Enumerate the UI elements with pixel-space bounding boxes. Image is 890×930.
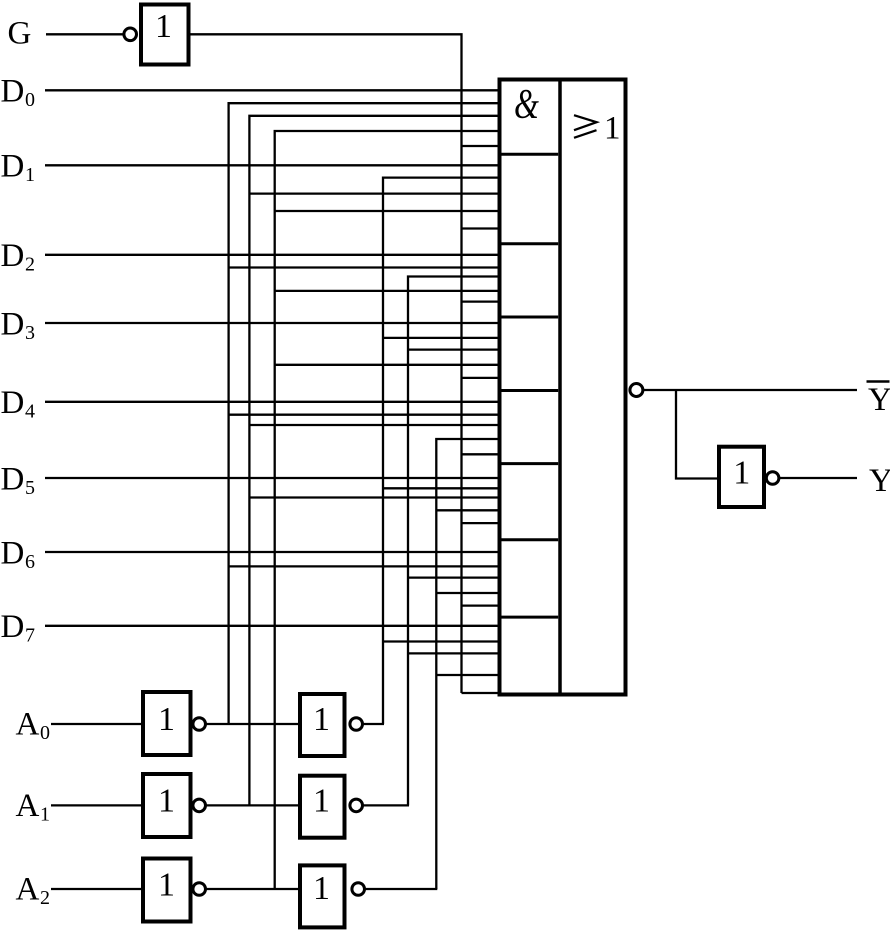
svg-text:G: G bbox=[8, 16, 32, 52]
wire A0 buffered to vertical bus bbox=[363, 723, 384, 725]
wire G-not tap to AND section 6 bbox=[462, 522, 500, 524]
inverter A0 first output bubble bbox=[193, 718, 206, 731]
svg-text:Y: Y bbox=[869, 463, 890, 499]
wire G-not tap to AND section 1 bbox=[462, 145, 500, 147]
wire G-not tap to AND section 3 bbox=[462, 300, 500, 302]
wire not-A2 tap to AND section 3 bbox=[275, 290, 499, 292]
wire A2 tap to AND section 8 bbox=[436, 674, 499, 676]
wire not-A2 tap to AND section 2 bbox=[275, 210, 499, 212]
wire D1 horizontal bbox=[45, 164, 499, 166]
wire A2 tap to AND section 6 bbox=[436, 509, 499, 511]
AND section divider 5 bbox=[500, 462, 559, 465]
inverter A0 second output bubble bbox=[350, 718, 363, 731]
inverter U4 (Y) box bbox=[719, 447, 764, 507]
svg-text:&: & bbox=[514, 81, 539, 129]
wire A2 tap to AND section 7 bbox=[436, 592, 499, 594]
svg-text:D: D bbox=[1, 306, 25, 342]
wire A1 tap to AND section 8 bbox=[408, 652, 499, 654]
wire not-A2 vertical bus bbox=[275, 131, 499, 889]
inverter A1 second output bubble bbox=[350, 799, 363, 812]
AND section divider 3 bbox=[500, 316, 559, 319]
wire not-A1 tap to AND section 2 bbox=[249, 192, 499, 194]
wire branch to output inverter bbox=[676, 390, 717, 479]
wire not-A0 vertical bus bbox=[229, 103, 499, 724]
wire A1 tap to AND section 4 bbox=[408, 348, 499, 350]
svg-text:1: 1 bbox=[313, 783, 330, 820]
wire G input lead bbox=[46, 33, 123, 35]
AND-gate block U2 outline with OR block U3 bbox=[500, 80, 626, 695]
wire not-A2 tap to AND section 4 bbox=[275, 364, 499, 366]
inverter A1 first box bbox=[143, 774, 191, 837]
svg-text:1: 1 bbox=[155, 8, 172, 45]
wire A1 tap to AND section 7 bbox=[408, 576, 499, 578]
node Y-not output label bbox=[867, 380, 890, 383]
wire D7 horizontal bbox=[45, 625, 499, 627]
inverter A2 second box bbox=[300, 865, 345, 927]
svg-text:1: 1 bbox=[604, 111, 621, 147]
wire D6 horizontal bbox=[45, 551, 499, 553]
wire G-not tap to AND section 7 bbox=[462, 604, 500, 606]
svg-text:7: 7 bbox=[25, 625, 35, 647]
OR block output bubble bbox=[630, 384, 643, 397]
wire A0 tap to AND section 6 bbox=[383, 487, 499, 489]
AND section divider 2 bbox=[500, 242, 559, 245]
wire A1 buffered to vertical bus bbox=[363, 804, 409, 806]
svg-text:A: A bbox=[16, 872, 40, 908]
inverter U1 (G) box bbox=[141, 5, 189, 65]
svg-text:1: 1 bbox=[313, 870, 330, 907]
AND section divider 7 bbox=[500, 616, 559, 619]
svg-text:4: 4 bbox=[25, 401, 35, 423]
wire not-A0 tap to AND section 3 bbox=[229, 266, 499, 268]
svg-text:D: D bbox=[1, 609, 25, 645]
svg-text:1: 1 bbox=[158, 867, 175, 904]
wire Y output bbox=[779, 477, 857, 479]
svg-text:A: A bbox=[16, 707, 40, 743]
wire not-A0 tap to AND section 5 bbox=[229, 414, 499, 416]
inverter U4 output bubble bbox=[766, 472, 779, 485]
inverter A0 first box bbox=[143, 692, 191, 755]
svg-text:5: 5 bbox=[25, 477, 35, 499]
AND section divider 6 bbox=[500, 538, 559, 541]
svg-text:1: 1 bbox=[158, 701, 175, 738]
wire D0 horizontal bbox=[45, 89, 499, 91]
svg-text:A: A bbox=[16, 788, 40, 824]
svg-text:D: D bbox=[1, 238, 25, 274]
wire not-A1 to second inverter bbox=[206, 804, 298, 806]
inverter A2 first box bbox=[143, 859, 191, 922]
wire D4 horizontal bbox=[45, 401, 499, 403]
wire G-not tap to AND section 4 bbox=[462, 377, 500, 379]
wire A0 tap to AND section 4 bbox=[383, 337, 499, 339]
svg-text:1: 1 bbox=[733, 455, 750, 492]
wire not-A0 to second inverter bbox=[206, 723, 298, 725]
inverter A1 first output bubble bbox=[193, 799, 206, 812]
wire A0 input lead bbox=[51, 723, 143, 725]
wire Y-not output bbox=[643, 389, 857, 391]
inverter A2 second output bubble bbox=[352, 883, 365, 896]
wire A2 input lead bbox=[51, 888, 143, 890]
svg-text:2: 2 bbox=[40, 887, 50, 909]
svg-text:3: 3 bbox=[25, 322, 35, 344]
wire A2 buffered to vertical bus bbox=[365, 888, 438, 890]
inverter A2 first output bubble bbox=[193, 883, 206, 896]
wire A2 vertical bus bbox=[436, 439, 499, 889]
svg-text:D: D bbox=[1, 461, 25, 497]
wire not-A1 tap to AND section 6 bbox=[249, 496, 499, 498]
svg-text:1: 1 bbox=[40, 803, 50, 825]
svg-text:2: 2 bbox=[25, 254, 35, 276]
svg-text:1: 1 bbox=[158, 783, 175, 820]
wire not-A1 vertical bus bbox=[249, 116, 499, 806]
svg-text:D: D bbox=[1, 74, 25, 110]
wire not-A0 tap to AND section 7 bbox=[229, 565, 499, 567]
svg-text:1: 1 bbox=[313, 701, 330, 738]
svg-text:D: D bbox=[1, 535, 25, 571]
inverter A0 second box bbox=[300, 694, 345, 756]
wire A0 vertical bus bbox=[383, 178, 499, 724]
AND section divider 1 bbox=[500, 153, 559, 156]
svg-text:D: D bbox=[1, 385, 25, 421]
svg-text:1: 1 bbox=[25, 164, 35, 186]
wire not-A1 tap to AND section 5 bbox=[249, 424, 499, 426]
wire D3 horizontal bbox=[45, 322, 499, 324]
wire G-not tap to AND section 8 bbox=[462, 692, 500, 694]
inverter A1 second box bbox=[300, 776, 345, 838]
wire G-not tap to AND section 5 bbox=[462, 453, 500, 455]
wire D5 horizontal bbox=[45, 477, 499, 479]
svg-text:D: D bbox=[1, 149, 25, 185]
wire not-A2 to second inverter bbox=[206, 888, 298, 890]
wire A1 vertical bus bbox=[408, 277, 499, 806]
wire A0 tap to AND section 8 bbox=[383, 640, 499, 642]
wire AND/OR divider bbox=[558, 80, 562, 695]
wire D2 horizontal bbox=[45, 254, 499, 256]
wire G-not tap to AND section 2 bbox=[462, 227, 500, 229]
inverter U1 input bubble bbox=[124, 28, 137, 41]
AND section divider 4 bbox=[500, 389, 559, 392]
svg-text:0: 0 bbox=[25, 89, 35, 111]
OR block label >=1 symbol bbox=[574, 115, 597, 130]
svg-text:0: 0 bbox=[40, 722, 50, 744]
wire G-not from U1 to vertical bus bbox=[191, 34, 462, 693]
svg-text:6: 6 bbox=[25, 551, 35, 573]
svg-text:Y: Y bbox=[868, 382, 890, 418]
wire A1 input lead bbox=[51, 804, 143, 806]
